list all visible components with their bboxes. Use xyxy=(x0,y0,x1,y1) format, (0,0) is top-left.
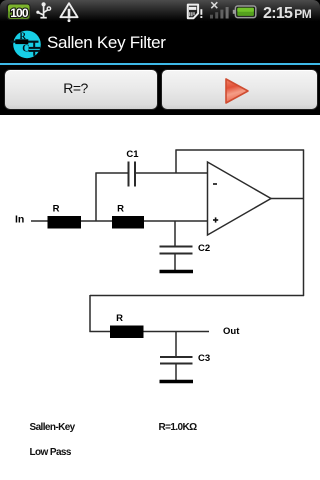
wire R2 to op-amp plus input xyxy=(144,220,208,222)
wire R1 to R2 xyxy=(81,220,112,222)
wire C3 drop from out node xyxy=(175,332,177,357)
no signal bars icon xyxy=(210,2,229,18)
screen corner top-left xyxy=(0,0,7,7)
wire C2 drop from plus node xyxy=(174,221,176,246)
resistor R2 xyxy=(112,204,144,229)
svg-text:Out: Out xyxy=(223,326,240,337)
svg-text:PM: PM xyxy=(294,7,312,21)
button bar xyxy=(0,65,320,115)
clock 2:15 PM xyxy=(263,5,312,22)
resistor R1 xyxy=(48,204,82,229)
wire R3 to Out xyxy=(144,331,210,333)
blue separator line xyxy=(0,63,320,65)
ground below C2 xyxy=(160,270,194,274)
wire feedback drop to minus node xyxy=(175,150,177,174)
wire C2 to ground xyxy=(174,254,176,271)
resistor R3 xyxy=(110,313,144,338)
svg-text:R: R xyxy=(53,204,60,215)
wire C1 right to op-amp minus input xyxy=(136,172,208,174)
svg-text:C1: C1 xyxy=(126,149,139,160)
usb icon xyxy=(36,2,50,17)
svg-text:R: R xyxy=(116,313,123,324)
svg-text:R: R xyxy=(117,204,124,215)
svg-text:In: In xyxy=(15,214,24,226)
status bar xyxy=(0,0,320,25)
capacitor C2 xyxy=(160,243,211,254)
wire right rail down xyxy=(303,150,305,297)
wire input xyxy=(31,220,48,222)
wire junction A up to C1 xyxy=(95,173,97,222)
svg-text:C3: C3 xyxy=(198,353,210,364)
screen corner top-right xyxy=(313,0,320,7)
no sim card icon xyxy=(188,5,202,19)
wire C1 left xyxy=(96,172,128,174)
wire to R3 xyxy=(90,331,111,333)
button R=? xyxy=(4,69,158,110)
app icon: RC filter logo xyxy=(8,25,48,63)
svg-text:C: C xyxy=(22,44,29,55)
svg-text:C2: C2 xyxy=(198,243,210,254)
svg-text:2:15: 2:15 xyxy=(263,5,293,22)
wire C3 to ground xyxy=(175,365,177,382)
warning triangle icon xyxy=(60,3,77,22)
battery percent widget 100 xyxy=(0,0,320,25)
wire top feedback rail xyxy=(176,149,305,151)
battery icon xyxy=(233,6,256,18)
capacitor C3 xyxy=(160,353,210,364)
button play xyxy=(161,69,318,110)
caption Low Pass xyxy=(30,447,71,458)
ground below C3 xyxy=(160,380,194,384)
wire op-amp output xyxy=(271,198,304,200)
wire bottom feedback xyxy=(90,295,304,297)
op-amp U1 xyxy=(208,162,272,235)
caption Sallen-Key xyxy=(30,422,75,433)
title bar xyxy=(0,25,320,63)
wire left drop to R3 xyxy=(89,295,91,332)
value label R=1.0KΩ xyxy=(159,422,197,433)
capacitor C1 xyxy=(126,149,139,187)
svg-text:100: 100 xyxy=(10,6,29,20)
